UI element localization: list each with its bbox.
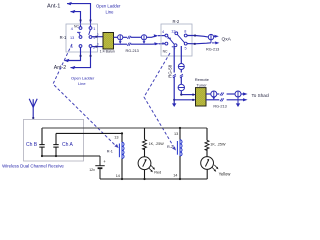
wire R-1 to balun upper: [92, 36, 103, 38]
svg-text:1: 1: [93, 27, 95, 31]
svg-text:RG-58: RG-58: [168, 64, 173, 77]
arrow To Shack lower: [243, 98, 248, 101]
svg-text:RG-213: RG-213: [126, 49, 139, 53]
arrows into R-2: [154, 34, 159, 37]
svg-text:13: 13: [174, 132, 178, 136]
svg-text:Line: Line: [106, 9, 115, 14]
junction dot: [173, 99, 175, 101]
relay coil R-2: [179, 127, 181, 129]
svg-text:13: 13: [114, 136, 118, 140]
junction squares below R-1: [80, 55, 82, 57]
coax connector circle 1: [118, 35, 123, 43]
svg-text:3: 3: [162, 41, 164, 45]
svg-text:Open Ladder: Open Ladder: [71, 76, 95, 81]
wires into tuner: [174, 95, 195, 100]
coax connector circle (R-2 output): [208, 34, 213, 42]
LED indicator Yellow: [201, 157, 214, 170]
RG-58 run down from R-2: right conductor with connectors: [180, 46, 182, 95]
arrows out (QxA): [214, 35, 215, 37]
mechanical link dashed R-2: [144, 53, 174, 147]
svg-text:1K, .25W: 1K, .25W: [149, 142, 165, 146]
receiver antenna: [29, 99, 37, 119]
svg-text:R-2: R-2: [167, 145, 173, 149]
svg-text:QxA: QxA: [222, 37, 232, 43]
svg-text:4: 4: [71, 27, 73, 31]
receiver box: [24, 119, 84, 161]
relay R-2 pin labels: [162, 29, 187, 50]
svg-text:14: 14: [116, 174, 120, 178]
shield termination down arrow: [236, 103, 240, 107]
wire R-1 pin5 to open ladder with arrow: [70, 48, 90, 70]
resistor R (1K .25W) left: [144, 128, 146, 140]
svg-text:Red: Red: [154, 171, 161, 175]
svg-text:RG-213: RG-213: [206, 47, 219, 51]
LED indicator Red: [138, 157, 151, 170]
junction squares top of R-1: [80, 19, 82, 21]
ground arrow at end: [172, 103, 176, 107]
svg-text:NC: NC: [74, 24, 79, 28]
break marks tuner run: [220, 92, 224, 101]
svg-text:5: 5: [185, 47, 187, 51]
wire R-1 pin8 to Ant-2 with arrow: [64, 48, 80, 63]
coax connector circle (tuner out 2): [235, 91, 241, 104]
svg-text:Wireless Dual Channel Receive: Wireless Dual Channel Receive: [2, 163, 64, 168]
wire lower rail (Ch A): [56, 132, 122, 134]
wire to Ant-1 lower with arrow: [70, 10, 80, 27]
battery 12v: [95, 156, 104, 179]
wire receiver common to battery: [42, 155, 100, 157]
coax connector circle 2: [141, 35, 146, 43]
svg-text:12: 12: [171, 29, 175, 33]
arrow To Shack upper: [243, 92, 248, 95]
tuner output lower conductor: [206, 99, 244, 101]
coax connector circle (vertical 1): [178, 64, 184, 70]
coax connector circle (tuner out 1): [211, 91, 217, 98]
relay R-2 box: [161, 24, 192, 56]
svg-text:Ch B: Ch B: [26, 142, 38, 148]
resistor R (1K .25W) right: [206, 128, 208, 140]
balun 1:4 transformer box: [103, 33, 114, 50]
relay R-1 pin labels: [70, 27, 95, 50]
coax from balun to R-2: upper conductor: [114, 36, 166, 38]
svg-text:RG-213: RG-213: [213, 105, 226, 109]
wire to Ant-1 upper with arrow: [67, 2, 91, 27]
svg-text:Open Ladder: Open Ladder: [96, 4, 121, 9]
svg-text:14: 14: [173, 173, 177, 177]
break marks vertical run: [173, 74, 183, 78]
wire R-1 to balun lower: [92, 46, 103, 48]
tuner output upper conductor: [206, 93, 244, 95]
svg-text:2: 2: [97, 33, 99, 37]
relay coil R-1: [121, 132, 123, 134]
coax from balun to R-2: lower conductor: [114, 43, 166, 46]
svg-text:Ant-1: Ant-1: [47, 4, 60, 10]
RG-58 run down from R-2: left conductor: [173, 48, 175, 105]
coax connector circle (vertical 2): [178, 84, 184, 90]
svg-text:To Shack: To Shack: [252, 93, 270, 98]
svg-text:Ant-2: Ant-2: [54, 65, 67, 71]
svg-text:Yellow: Yellow: [219, 171, 231, 176]
mechanical link dashed R-1: [53, 44, 116, 146]
wire upper rail (Ch B): [42, 127, 207, 129]
capacitor Ch B: [39, 128, 44, 156]
svg-text:4: 4: [162, 30, 164, 34]
svg-text:8: 8: [184, 29, 186, 33]
relay R-1 contacts: [77, 27, 92, 48]
wire bottom rail: [100, 178, 207, 180]
svg-text:Tuner: Tuner: [196, 82, 207, 87]
svg-text:R-2: R-2: [173, 19, 180, 24]
svg-text:1:4 Balun: 1:4 Balun: [100, 49, 115, 53]
remote tuner box: [196, 88, 207, 106]
coax break marks: [127, 36, 131, 46]
svg-text:Line: Line: [78, 81, 86, 86]
svg-text:12v: 12v: [89, 168, 95, 172]
svg-text:Ch A: Ch A: [62, 142, 74, 148]
capacitor Ch A: [53, 133, 58, 156]
svg-text:R-1: R-1: [107, 149, 113, 153]
svg-text:R-1: R-1: [60, 35, 67, 40]
relay R-2 contacts: [165, 32, 187, 47]
R-2 right exit wires to coax connector: [187, 36, 211, 44]
relay R-1 box: [66, 24, 98, 52]
svg-text:NC: NC: [163, 49, 168, 53]
svg-text:1K, .25W: 1K, .25W: [210, 143, 226, 147]
svg-text:13: 13: [70, 36, 74, 40]
svg-text:3: 3: [97, 43, 99, 47]
